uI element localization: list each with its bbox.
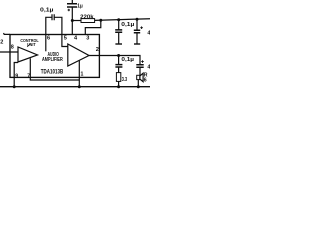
node junction C3 [117, 18, 120, 21]
pin 7 wire [30, 58, 79, 80]
pin 9 wire [14, 63, 18, 87]
node junction pin4 / supply [71, 19, 74, 22]
control unit amplifier triangle [18, 47, 38, 62]
plus mark of C2 [68, 9, 70, 11]
svg-text:4: 4 [147, 65, 150, 71]
control arrow tick [27, 44, 30, 47]
svg-text:4: 4 [147, 30, 150, 36]
node junction C4 [136, 18, 139, 21]
svg-text:3.3: 3.3 [122, 77, 127, 83]
pin 3 wire jog from supply rail [85, 20, 101, 34]
plus mark of C6 [141, 60, 144, 63]
svg-text:6: 6 [144, 77, 147, 83]
ground bar of C3 [115, 43, 122, 45]
pin 5 stub inside box [62, 35, 68, 47]
pin 8 input wire [0, 51, 18, 53]
svg-text:UNIT: UNIT [27, 42, 36, 48]
capacitor C6 electrolytic output coupling [136, 65, 143, 68]
capacitor C1 0,1µ between pin 6 and pin 5 [46, 17, 62, 34]
pin 1 feedback wire to ground rail [78, 60, 80, 86]
capacitor C2 1µ from top edge to pin 4 node [71, 0, 73, 3]
pin 2 output wire [89, 56, 140, 65]
capacitor C4 electrolytic supply [136, 19, 138, 30]
svg-text:8: 8 [11, 45, 14, 51]
node junction pin9/ground [13, 85, 16, 88]
svg-text:TDA1013B: TDA1013B [41, 70, 64, 76]
svg-text:6: 6 [47, 36, 50, 42]
plus mark of C4 [140, 26, 143, 29]
capacitor C5 0,1µ zobel [118, 56, 120, 65]
node junction zobel/ground [117, 85, 120, 88]
svg-text:AMPLIFIER: AMPLIFIER [42, 57, 63, 63]
svg-text:2: 2 [96, 47, 99, 53]
svg-text:0,1µ: 0,1µ [121, 57, 134, 63]
node junction pin3 [99, 19, 102, 22]
wire stub into top-left corner [4, 33, 11, 34]
ground bar of C4 [134, 43, 140, 45]
svg-text:2: 2 [0, 40, 3, 46]
node junction output / zobel [117, 54, 120, 57]
resistor R1 220k [72, 20, 81, 22]
supply rail wire to right edge [95, 19, 150, 21]
pin 6 stub inside box [45, 35, 47, 52]
svg-text:0,1µ: 0,1µ [40, 7, 54, 13]
svg-text:5: 5 [64, 36, 67, 42]
svg-text:1µ: 1µ [77, 3, 82, 9]
svg-text:3: 3 [86, 36, 89, 42]
capacitor C3 0,1µ supply decoupling [118, 20, 120, 30]
svg-text:4: 4 [74, 36, 78, 42]
svg-text:1: 1 [81, 72, 84, 78]
op-amp U1 TDA1013B IC outline box [10, 35, 99, 78]
speaker LS [137, 75, 140, 79]
resistor R2 3.3 zobel [116, 73, 120, 82]
audio amplifier triangle [68, 44, 89, 66]
svg-text:7: 7 [27, 73, 30, 79]
node junction speaker/ground [137, 85, 140, 88]
svg-text:0,1µ: 0,1µ [121, 22, 134, 28]
ground rail [0, 86, 150, 88]
svg-text:9: 9 [15, 73, 18, 79]
svg-text:220k: 220k [80, 14, 94, 20]
node junction pin1/ground [78, 85, 81, 88]
